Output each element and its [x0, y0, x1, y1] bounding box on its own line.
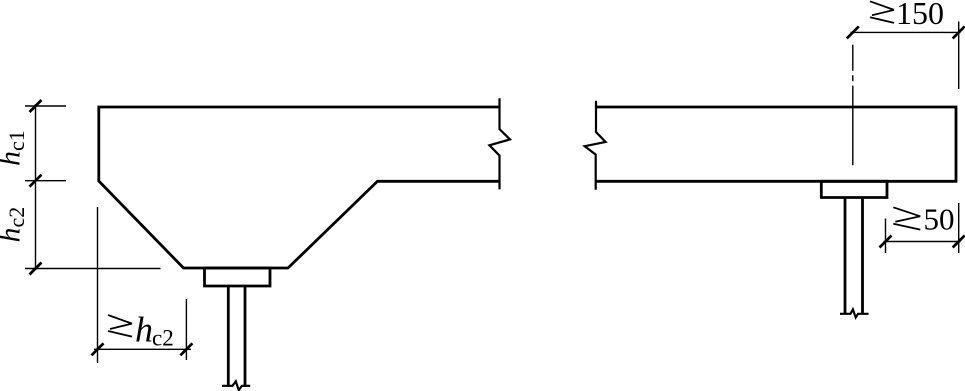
- svg-text:c2: c2: [152, 326, 174, 351]
- svg-text:h: h: [135, 310, 153, 350]
- svg-text:50: 50: [924, 202, 955, 237]
- svg-text:h: h: [0, 151, 27, 166]
- svg-text:c2: c2: [4, 207, 29, 228]
- svg-text:h: h: [0, 228, 27, 243]
- svg-text:c1: c1: [4, 130, 29, 151]
- svg-text:150: 150: [896, 0, 944, 31]
